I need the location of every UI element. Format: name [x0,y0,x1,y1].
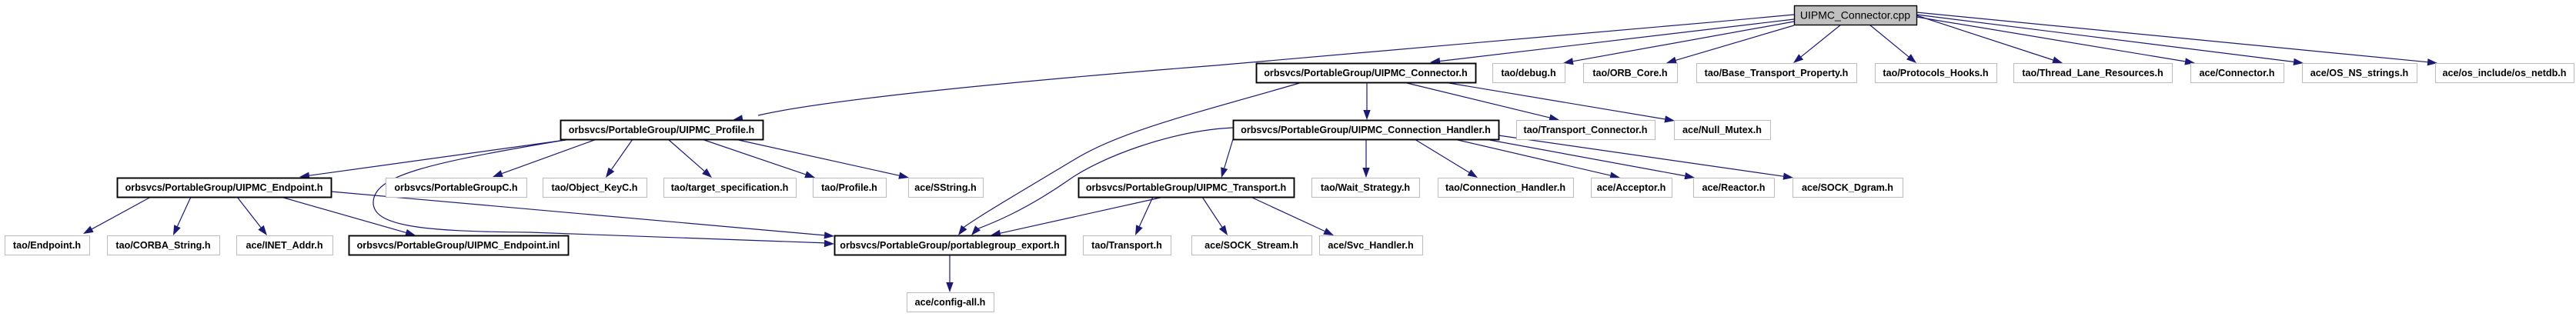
svg-text:ace/OS_NS_strings.h: ace/OS_NS_strings.h [2310,68,2408,78]
svg-text:tao/Transport_Connector.h: tao/Transport_Connector.h [1524,125,1648,135]
svg-text:tao/Connection_Handler.h: tao/Connection_Handler.h [1445,182,1565,193]
svg-text:tao/target_specification.h: tao/target_specification.h [671,182,789,193]
svg-text:tao/Base_Transport_Property.h: tao/Base_Transport_Property.h [1705,68,1849,78]
svg-text:ace/Acceptor.h: ace/Acceptor.h [1597,182,1666,193]
svg-text:tao/Wait_Strategy.h: tao/Wait_Strategy.h [1321,182,1410,193]
svg-text:ace/INET_Addr.h: ace/INET_Addr.h [246,240,322,251]
svg-text:orbsvcs/PortableGroup/UIPMC_En: orbsvcs/PortableGroup/UIPMC_Endpoint.inl [357,240,560,251]
svg-text:orbsvcs/PortableGroup/portable: orbsvcs/PortableGroup/portablegroup_expo… [840,240,1060,251]
svg-text:ace/SOCK_Stream.h: ace/SOCK_Stream.h [1204,240,1298,251]
svg-text:orbsvcs/PortableGroup/UIPMC_Co: orbsvcs/PortableGroup/UIPMC_Connector.h [1264,68,1468,78]
svg-text:ace/Null_Mutex.h: ace/Null_Mutex.h [1682,125,1762,135]
svg-text:tao/Transport.h: tao/Transport.h [1091,240,1162,251]
svg-text:ace/Reactor.h: ace/Reactor.h [1702,182,1766,193]
svg-text:ace/SOCK_Dgram.h: ace/SOCK_Dgram.h [1802,182,1893,193]
svg-text:tao/Thread_Lane_Resources.h: tao/Thread_Lane_Resources.h [2022,68,2163,78]
svg-text:orbsvcs/PortableGroup/UIPMC_Pr: orbsvcs/PortableGroup/UIPMC_Profile.h [569,125,754,135]
svg-text:tao/Endpoint.h: tao/Endpoint.h [13,240,81,251]
svg-text:ace/config-all.h: ace/config-all.h [915,297,986,308]
svg-text:tao/Object_KeyC.h: tao/Object_KeyC.h [552,182,638,193]
svg-text:tao/CORBA_String.h: tao/CORBA_String.h [115,240,210,251]
svg-text:tao/Protocols_Hooks.h: tao/Protocols_Hooks.h [1883,68,1988,78]
svg-text:ace/SString.h: ace/SString.h [914,182,976,193]
svg-text:ace/os_include/os_netdb.h: ace/os_include/os_netdb.h [2443,68,2567,78]
svg-text:ace/Svc_Handler.h: ace/Svc_Handler.h [1328,240,1413,251]
svg-text:UIPMC_Connector.cpp: UIPMC_Connector.cpp [1800,9,1910,22]
svg-text:ace/Connector.h: ace/Connector.h [2200,68,2275,78]
svg-text:tao/Profile.h: tao/Profile.h [821,182,877,193]
svg-text:tao/debug.h: tao/debug.h [1501,68,1555,78]
svg-text:orbsvcs/PortableGroup/UIPMC_Co: orbsvcs/PortableGroup/UIPMC_Connection_H… [1241,125,1491,135]
svg-text:orbsvcs/PortableGroup/UIPMC_Tr: orbsvcs/PortableGroup/UIPMC_Transport.h [1086,182,1286,193]
svg-text:orbsvcs/PortableGroupC.h: orbsvcs/PortableGroupC.h [394,182,517,193]
svg-text:tao/ORB_Core.h: tao/ORB_Core.h [1592,68,1667,78]
svg-text:orbsvcs/PortableGroup/UIPMC_En: orbsvcs/PortableGroup/UIPMC_Endpoint.h [125,182,323,193]
